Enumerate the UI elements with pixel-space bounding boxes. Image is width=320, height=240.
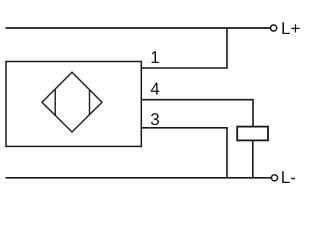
wire: pin 4 to load — [141, 100, 253, 127]
wire: L- supply rail (bottom) — [6, 177, 272, 179]
proximity sensor symbol: left chord — [54, 89, 56, 115]
wire: pin 3 to L- rail — [141, 128, 227, 178]
proximity sensor symbol: diamond — [42, 72, 102, 132]
sensor box U1 (outline) — [6, 62, 141, 147]
terminal L+ — [271, 25, 277, 31]
terminal L- — [271, 175, 277, 181]
svg-text:L+: L+ — [281, 19, 300, 38]
load resistor RL — [237, 127, 268, 141]
wire: load to L- rail — [252, 140, 254, 177]
svg-text:L-: L- — [281, 168, 296, 187]
wire: L+ supply rail (top) — [6, 27, 271, 29]
svg-text:4: 4 — [150, 80, 159, 99]
svg-text:3: 3 — [150, 110, 159, 129]
proximity sensor symbol: right chord — [89, 90, 91, 115]
svg-text:1: 1 — [150, 48, 159, 67]
wire: pin 1 to L+ rail — [141, 28, 227, 68]
